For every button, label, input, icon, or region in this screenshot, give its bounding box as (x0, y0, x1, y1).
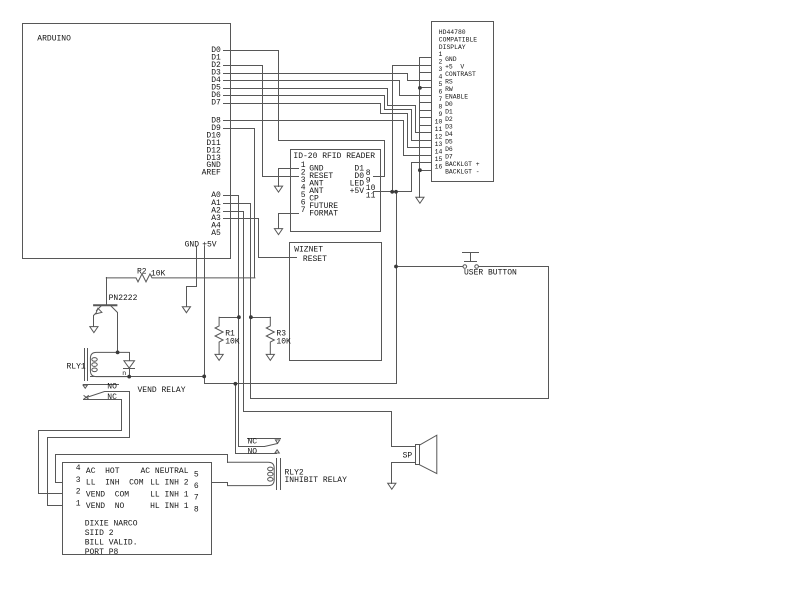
svg-text:+5V: +5V (350, 187, 365, 196)
svg-text:LL INH 2: LL INH 2 (150, 479, 189, 488)
svg-text:USER BUTTON: USER BUTTON (464, 269, 517, 278)
svg-text:10K: 10K (225, 338, 240, 347)
svg-text:AC HOT: AC HOT (86, 467, 120, 476)
svg-text:5: 5 (438, 81, 442, 88)
svg-text:+5V: +5V (202, 240, 217, 249)
svg-text:3: 3 (438, 66, 442, 73)
svg-text:2: 2 (76, 488, 81, 497)
svg-text:10: 10 (435, 119, 443, 126)
svg-text:1: 1 (438, 51, 442, 58)
svg-text:ID-20 RFID READER: ID-20 RFID READER (293, 152, 375, 161)
svg-text:VEND RELAY: VEND RELAY (138, 386, 186, 395)
svg-text:D7: D7 (211, 99, 221, 108)
svg-text:7: 7 (438, 96, 442, 103)
svg-text:7: 7 (194, 494, 199, 503)
svg-text:12: 12 (435, 134, 443, 141)
svg-text:CONTRAST: CONTRAST (445, 71, 476, 78)
svg-text:GND: GND (445, 56, 457, 63)
svg-text:D2: D2 (445, 116, 453, 123)
svg-text:ENABLE: ENABLE (445, 94, 468, 101)
svg-text:8: 8 (438, 104, 442, 111)
svg-text:D1: D1 (445, 109, 453, 116)
svg-text:BILL VALID.: BILL VALID. (85, 538, 138, 547)
svg-text:15: 15 (435, 156, 443, 163)
svg-text:RW: RW (445, 86, 453, 93)
svg-text:5: 5 (194, 470, 199, 479)
svg-text:DISPLAY: DISPLAY (439, 44, 466, 51)
svg-text:RESET: RESET (303, 255, 327, 264)
svg-text:AREF: AREF (202, 169, 221, 178)
svg-text:LL INH 1: LL INH 1 (150, 490, 189, 499)
svg-text:4: 4 (76, 464, 81, 473)
svg-text:11: 11 (435, 126, 443, 133)
svg-text:D5: D5 (445, 139, 453, 146)
svg-text:A5: A5 (211, 229, 221, 238)
svg-text:RLY1: RLY1 (67, 363, 86, 372)
svg-text:ARDUINO: ARDUINO (37, 35, 71, 44)
svg-text:HD44780: HD44780 (439, 29, 466, 36)
svg-text:10K: 10K (151, 270, 166, 279)
svg-text:PN2222: PN2222 (109, 294, 138, 303)
svg-text:D6: D6 (445, 146, 453, 153)
svg-text:SIID 2: SIID 2 (85, 529, 114, 538)
svg-text:WIZNET: WIZNET (294, 246, 323, 255)
svg-text:16: 16 (435, 164, 443, 171)
svg-text:+5 V: +5 V (445, 64, 464, 71)
svg-text:7: 7 (301, 206, 306, 215)
svg-text:VEND NO: VEND NO (86, 502, 125, 511)
svg-text:9: 9 (438, 111, 442, 118)
svg-text:DIXIE NARCO: DIXIE NARCO (85, 520, 138, 529)
svg-text:GND: GND (185, 240, 200, 249)
svg-text:11: 11 (366, 191, 376, 200)
svg-text:NC: NC (248, 438, 258, 447)
svg-text:VEND COM: VEND COM (86, 490, 129, 499)
svg-text:RS: RS (445, 79, 453, 86)
svg-text:D4: D4 (445, 131, 453, 138)
svg-text:INHIBIT RELAY: INHIBIT RELAY (285, 476, 348, 485)
svg-text:2: 2 (438, 59, 442, 66)
svg-text:R2: R2 (137, 268, 147, 277)
svg-text:13: 13 (435, 141, 443, 148)
svg-text:BACKLGT -: BACKLGT - (445, 169, 480, 176)
svg-text:AC NEUTRAL: AC NEUTRAL (140, 467, 188, 476)
svg-text:NC: NC (107, 393, 117, 402)
svg-text:SP: SP (403, 452, 413, 461)
svg-text:10K: 10K (276, 338, 291, 347)
svg-text:NO: NO (248, 448, 258, 457)
svg-text:1: 1 (76, 499, 81, 508)
svg-text:BACKLGT +: BACKLGT + (445, 161, 480, 168)
svg-text:D3: D3 (445, 124, 453, 131)
svg-text:FORMAT: FORMAT (309, 210, 338, 219)
svg-text:n: n (122, 370, 126, 377)
svg-text:D7: D7 (445, 154, 453, 161)
svg-text:PORT P8: PORT P8 (85, 548, 119, 557)
svg-text:HL INH 1: HL INH 1 (150, 502, 189, 511)
svg-text:NO: NO (107, 383, 117, 392)
svg-text:6: 6 (438, 89, 442, 96)
svg-text:6: 6 (194, 482, 199, 491)
svg-text:COMPATIBLE: COMPATIBLE (439, 36, 478, 43)
svg-text:4: 4 (438, 74, 442, 81)
svg-text:8: 8 (194, 505, 199, 514)
svg-text:3: 3 (76, 476, 81, 485)
svg-text:D0: D0 (445, 101, 453, 108)
svg-text:LL INH COM: LL INH COM (86, 479, 144, 488)
svg-text:14: 14 (435, 149, 443, 156)
